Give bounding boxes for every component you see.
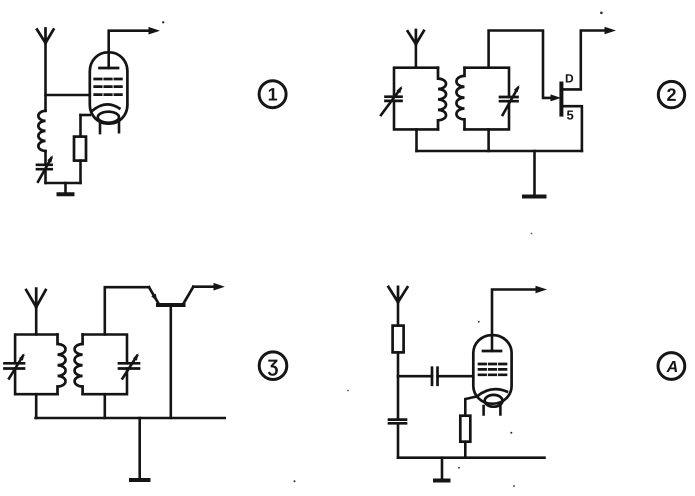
tank 1 frame wires: [394, 68, 438, 130]
variable capacitor C2b: [500, 85, 520, 115]
capacitor C4b bypass: [389, 420, 406, 424]
label D: [566, 74, 573, 82]
inductor L2b: [456, 68, 464, 130]
inductor L1: [38, 111, 45, 151]
wire grid wire: [46, 94, 90, 97]
wire bottom: [46, 182, 81, 185]
wire anode output 4: [492, 290, 536, 352]
tank 3b frame wires: [83, 335, 127, 395]
label circle 4: [658, 353, 685, 380]
inductor L2a: [438, 68, 446, 130]
arrowhead output 2: [605, 27, 617, 35]
scan specks: [162, 12, 603, 487]
wire cap to rail: [397, 423, 400, 457]
variable capacitor C1: [37, 155, 53, 181]
antenna A3: [26, 289, 46, 308]
wire collector output: [193, 285, 214, 288]
wire tank2 top to gate: [489, 31, 553, 98]
wire drain: [561, 31, 606, 90]
resistor R4b: [460, 396, 477, 457]
wire bottom rail 3: [36, 417, 225, 420]
arrowhead gate: [551, 94, 562, 101]
label S: [567, 111, 573, 120]
antenna A1: [37, 29, 54, 44]
wire cap to grid: [438, 375, 474, 378]
inductor L3b: [75, 335, 83, 395]
ground 3: [129, 418, 151, 480]
antenna A4: [388, 287, 407, 302]
transistor Q2: [149, 287, 193, 418]
arrowhead output 3: [214, 283, 225, 291]
wire antenna lead: [415, 44, 418, 68]
variable capacitor C3a: [5, 353, 25, 378]
capacitor C4a coupling: [432, 368, 438, 385]
wire tank3b top to transistor: [105, 287, 149, 334]
resistor R4a: [393, 326, 404, 377]
inductor L3a: [58, 335, 66, 395]
label circle 3: [259, 352, 287, 380]
tank 3a frame wires: [15, 335, 57, 395]
wire cathode lead: [81, 114, 90, 117]
wire tank2 bottom stub: [487, 129, 490, 151]
ground 2: [522, 151, 547, 197]
antenna A2: [408, 30, 424, 44]
label circle 2: [658, 81, 684, 107]
tube V1: [90, 52, 128, 133]
resistor R1: [74, 115, 86, 183]
wire tank3a bottom stub: [35, 394, 38, 418]
tank 2 frame wires: [465, 68, 510, 130]
ground 4: [433, 458, 451, 481]
arrowhead output 4: [536, 286, 548, 294]
ground: [57, 183, 75, 194]
arrowhead output 1: [149, 27, 161, 35]
wire tank1 bottom stub: [415, 129, 418, 151]
variable capacitor C3b: [119, 353, 139, 378]
wire bottom rail 4: [398, 456, 545, 459]
wire bottom rail 2: [417, 150, 582, 153]
label circle 1: [259, 81, 286, 108]
wire antenna lead: [397, 302, 400, 326]
wire antenna lead down: [44, 43, 47, 111]
tube V2: [473, 335, 511, 414]
wire cap to bottom: [44, 169, 47, 183]
wire tank3b bottom stub: [104, 394, 107, 418]
wire source: [561, 106, 582, 151]
transistor Q1 JFET channel: [559, 82, 563, 117]
wire node to coupling cap: [398, 375, 432, 378]
wire anode output: [109, 31, 150, 68]
variable capacitor C2a: [381, 86, 402, 115]
wire antenna lead: [35, 307, 38, 334]
wire coil to cap: [44, 151, 47, 165]
wire node down: [397, 376, 400, 419]
